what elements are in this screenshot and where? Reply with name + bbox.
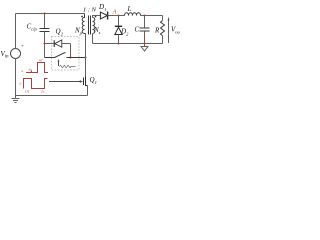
svg-text:D1: D1: [98, 3, 106, 12]
wire D1 to node A: [108, 15, 125, 17]
wire Cclp bottom lead: [44, 32, 46, 41]
svg-text:a: a: [22, 69, 24, 73]
svg-text:+: +: [21, 44, 24, 50]
svg-text:v̇g: v̇g: [29, 67, 33, 71]
pulse waveform upper: [26, 63, 48, 73]
wire D2 bottom lead: [118, 35, 120, 44]
svg-text:Vout: Vout: [171, 26, 180, 35]
wire right rail corner to R: [162, 16, 164, 21]
wire Cclp top lead: [44, 14, 46, 29]
svg-text:R: R: [154, 27, 160, 35]
wire secondary top to D1: [93, 16, 101, 18]
diode clamp body (points left): [54, 40, 70, 47]
svg-text:D2: D2: [120, 28, 129, 37]
svg-text:Ṭs: Ṭs: [41, 90, 45, 94]
svg-text:1 : N: 1 : N: [83, 7, 97, 14]
transformer phase dot secondary: [95, 16, 97, 18]
mosfet Q1: [84, 77, 88, 87]
capacitor C: [140, 28, 150, 31]
wire gate drive with arrow: [49, 81, 80, 83]
node clamp (Cclp bottom): [43, 42, 45, 44]
wire bottom rail: [16, 95, 88, 97]
wire red segment diode branch: [70, 53, 72, 58]
svg-text:C: C: [135, 26, 140, 34]
wire left vertical Vin top: [15, 14, 17, 49]
wire clamp node to switch: [44, 44, 46, 58]
resistor R: [161, 21, 165, 36]
diode D2 (freewheeling, cathode up): [115, 26, 122, 34]
svg-text:Cclp: Cclp: [27, 23, 38, 32]
wire L to right corner: [141, 15, 163, 17]
switch ideal: [45, 52, 86, 57]
wire C bottom lead (red): [144, 32, 146, 44]
svg-text:v̇g²: v̇g²: [39, 58, 44, 62]
transformer primary winding Np: [82, 14, 85, 34]
svg-text:Ns: Ns: [93, 26, 101, 35]
node diode/switch junction: [69, 56, 71, 58]
source Vin: [11, 49, 21, 59]
svg-text:Q1: Q1: [90, 76, 97, 85]
dashed box Q2 clamp switch model: [52, 37, 80, 71]
node drain junction: [84, 56, 86, 58]
wire top rail from Vin to transformer primary: [16, 13, 85, 15]
wire red segment above clamp node: [44, 40, 46, 44]
wire output bottom rail: [93, 43, 163, 45]
wire drain vertical (primary bottom to Q1): [85, 34, 87, 77]
node A: [117, 14, 119, 16]
wire left vertical Vin bottom: [15, 59, 17, 96]
diode D1: [100, 12, 107, 20]
svg-text:Vin: Vin: [1, 50, 10, 60]
pulse waveform lower: [24, 79, 48, 89]
transformer phase dot primary: [81, 16, 83, 18]
wire diode branch corner down: [70, 44, 72, 54]
wire node A down to D2: [118, 16, 120, 27]
inductor L: [125, 13, 141, 16]
arrow switch actuation: [58, 62, 60, 67]
svg-text:Np: Np: [74, 27, 83, 36]
node L/C junction: [143, 14, 145, 16]
arrow Vout: [168, 21, 170, 44]
node C bottom: [143, 42, 145, 44]
svg-text:L: L: [127, 5, 132, 13]
wire secondary bottom lead: [92, 34, 94, 44]
ground output: [144, 44, 146, 47]
svg-text:Q2: Q2: [56, 28, 64, 37]
wire C top lead: [144, 16, 146, 28]
ground left: [12, 96, 20, 103]
resistor gate small: [60, 65, 76, 68]
capacitor Cclp: [40, 29, 50, 32]
node D2 bottom: [117, 42, 119, 44]
wire R bottom lead: [162, 36, 164, 44]
transformer core: [89, 16, 91, 35]
node junction Cclp/top rail: [43, 12, 45, 14]
svg-text:DṬ: DṬ: [24, 90, 31, 94]
wire diode anode lead: [45, 43, 54, 45]
svg-text:b: b: [20, 82, 22, 86]
transformer secondary winding Ns: [93, 18, 95, 34]
svg-text:A: A: [112, 9, 117, 15]
wire source vertical: [87, 86, 89, 96]
